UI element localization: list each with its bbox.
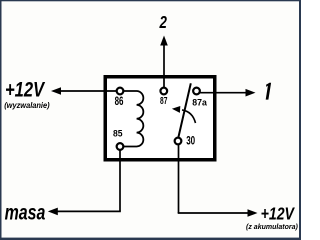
- svg-text:(wyzwalanie): (wyzwalanie): [4, 101, 50, 110]
- svg-text:(z akumulatora): (z akumulatora): [246, 222, 298, 231]
- svg-text:87: 87: [160, 94, 167, 106]
- svg-text:87a: 87a: [192, 97, 208, 107]
- svg-text:2: 2: [159, 13, 167, 32]
- svg-text:86: 86: [115, 96, 124, 109]
- svg-text:30: 30: [186, 135, 195, 148]
- svg-text:+12V: +12V: [5, 78, 46, 102]
- svg-text:masa: masa: [5, 200, 46, 224]
- svg-text:85: 85: [113, 128, 123, 138]
